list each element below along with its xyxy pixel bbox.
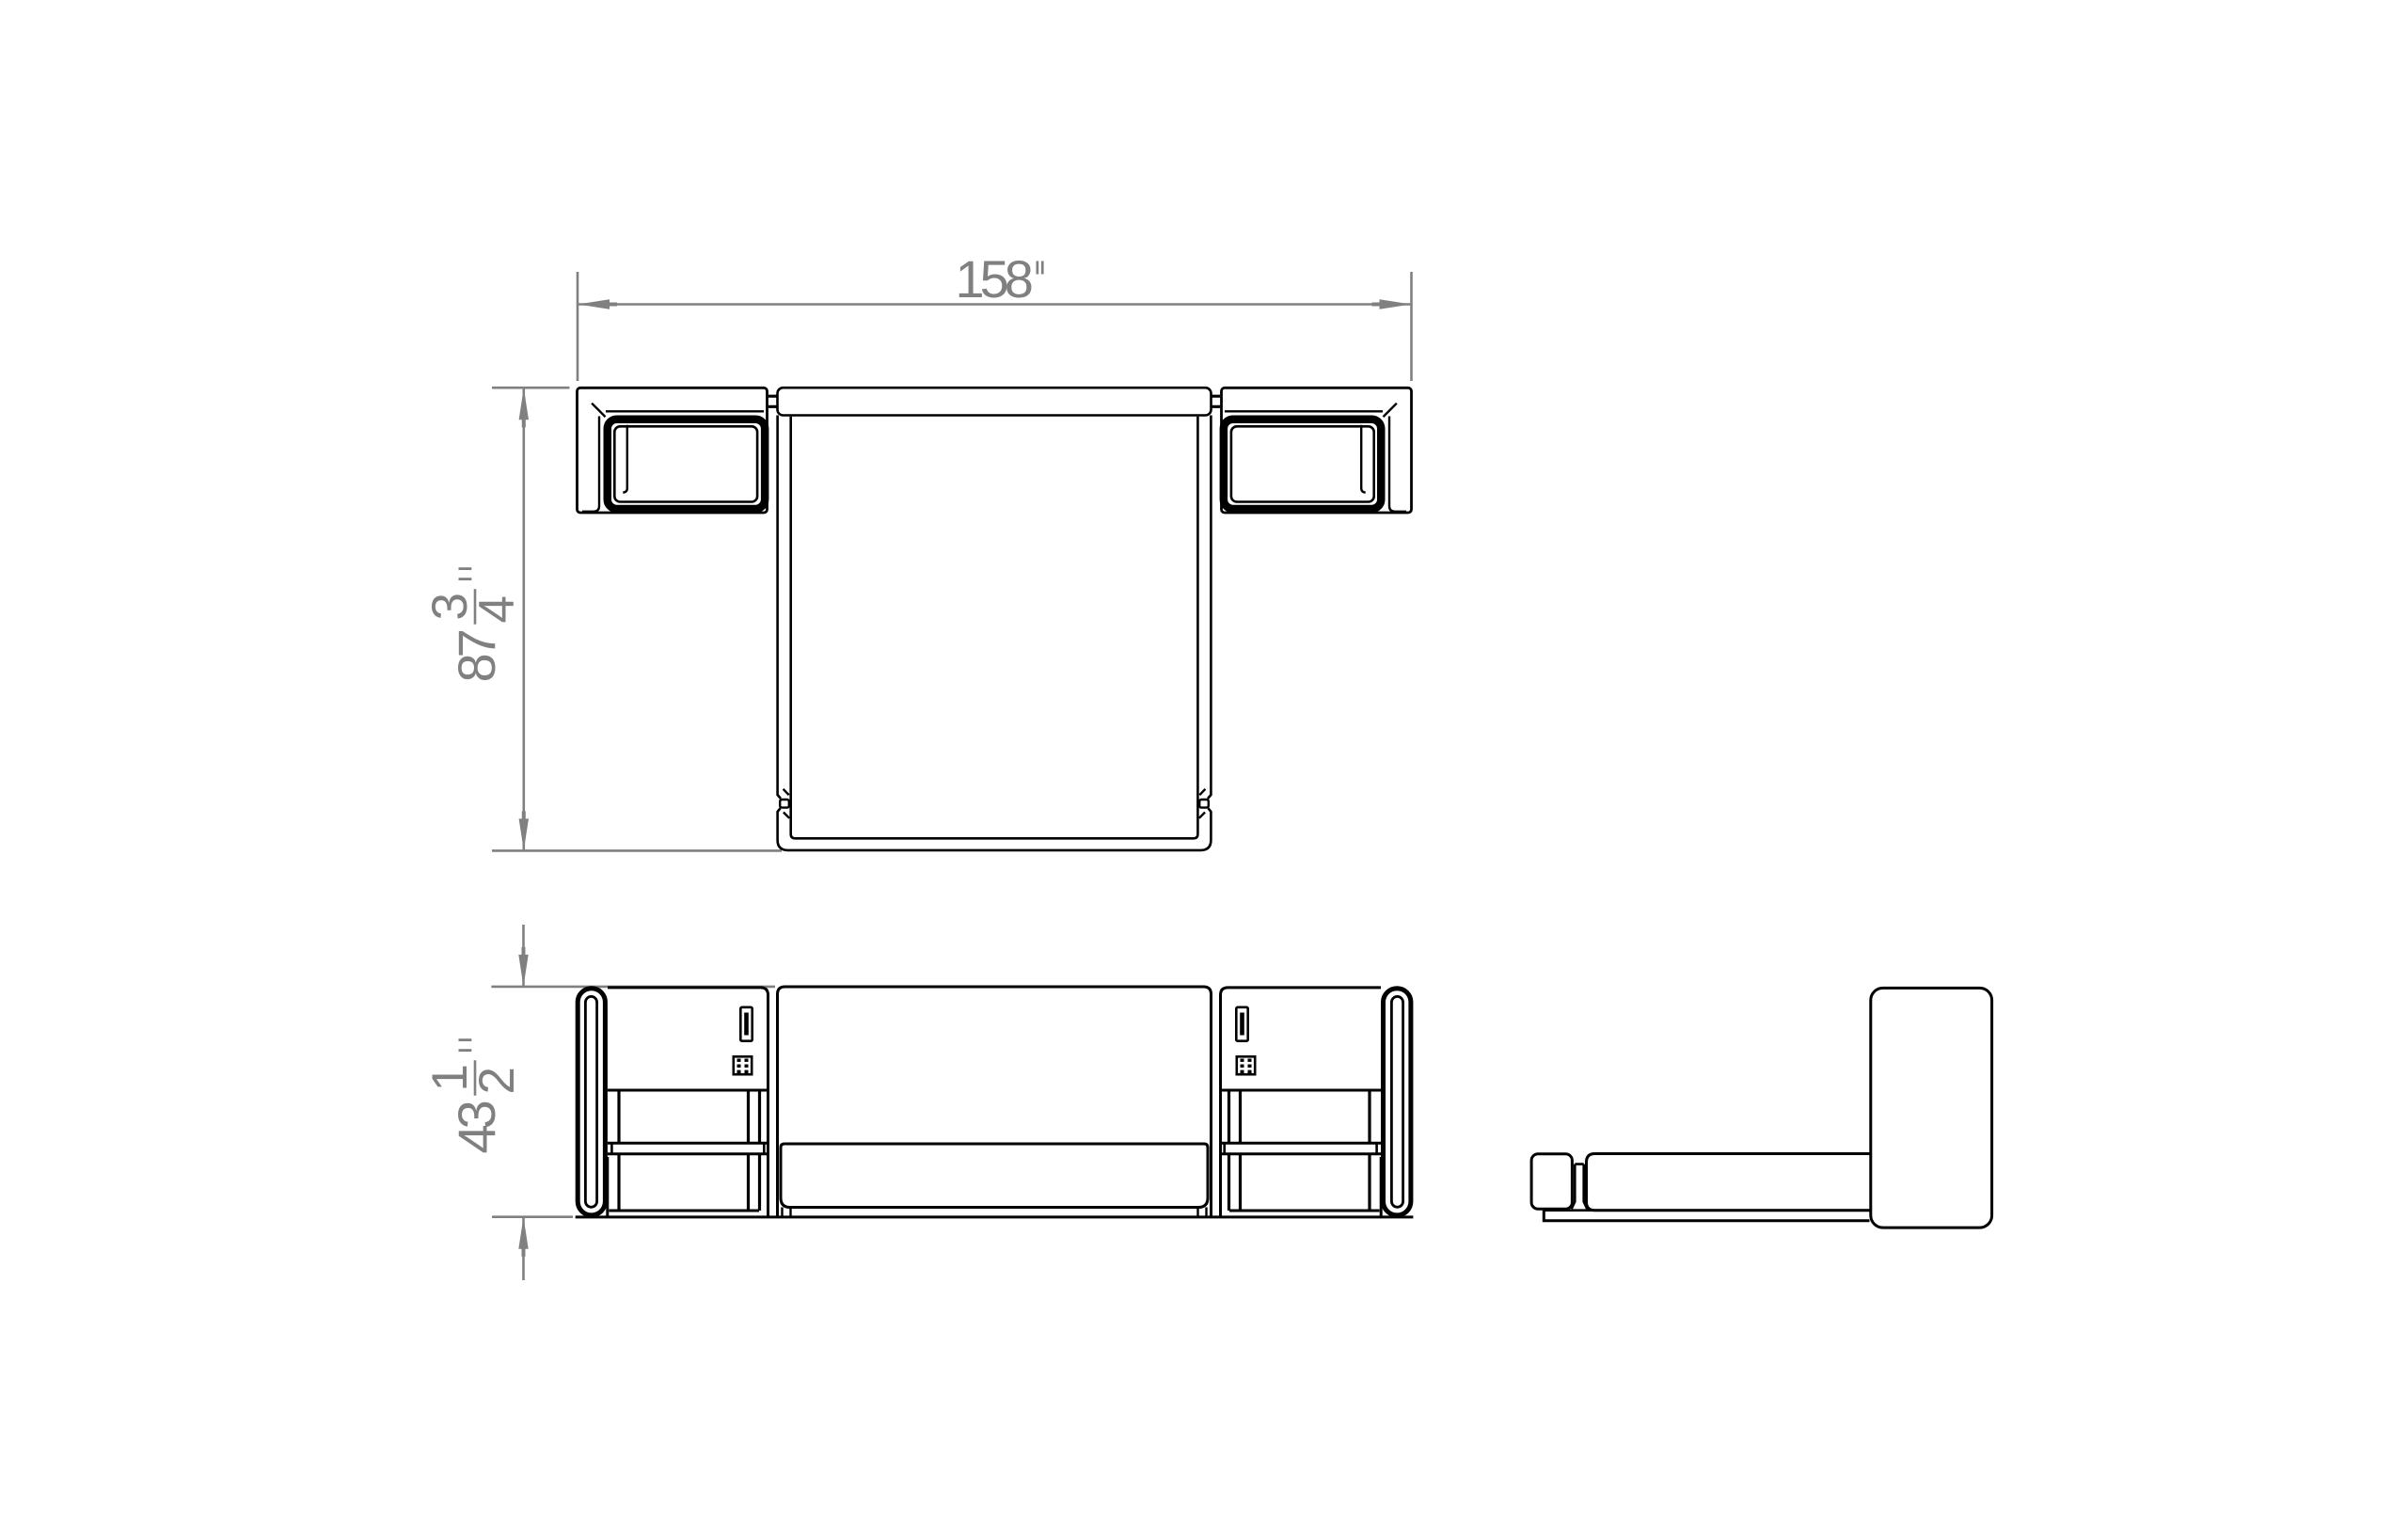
svg-text:87: 87: [447, 630, 506, 682]
svg-text:43: 43: [447, 1101, 506, 1153]
svg-text:2: 2: [469, 1067, 525, 1094]
svg-text:4: 4: [469, 595, 525, 623]
svg-text:158: 158: [956, 249, 1032, 309]
